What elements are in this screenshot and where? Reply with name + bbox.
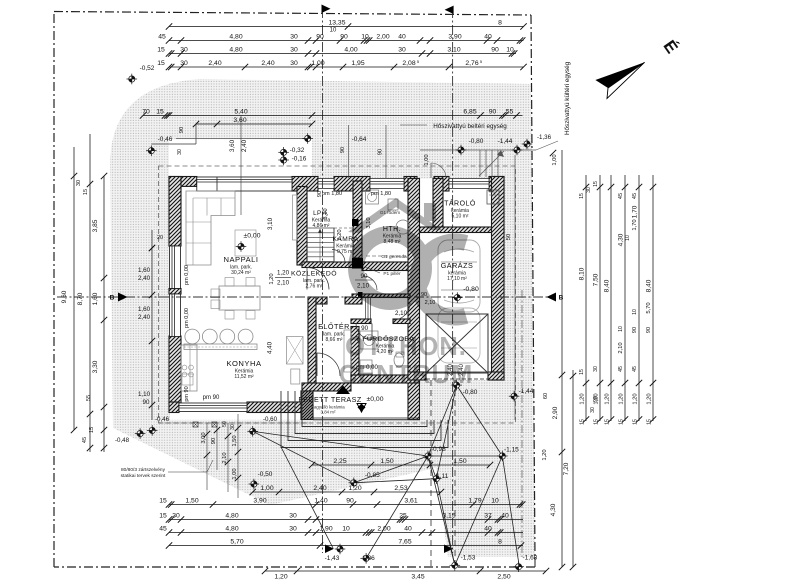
- svg-text:-0,32: -0,32: [290, 147, 305, 154]
- terrace south edge: [313, 417, 420, 419]
- svg-text:3,60: 3,60: [229, 139, 236, 152]
- svg-text:15: 15: [157, 60, 165, 67]
- svg-text:45: 45: [158, 33, 166, 40]
- svg-text:1,70: 1,70: [632, 205, 639, 218]
- svg-text:90: 90: [378, 149, 384, 155]
- svg-text:-1,26: -1,26: [360, 555, 375, 562]
- svg-text:-1,44: -1,44: [519, 388, 534, 395]
- pillar P1: [352, 258, 363, 269]
- svg-text:FEDETT TERASZ: FEDETT TERASZ: [298, 395, 361, 404]
- svg-text:OTTHON.: OTTHON.: [345, 333, 467, 361]
- svg-text:15: 15: [579, 369, 585, 375]
- parcel stippled ground: [110, 79, 535, 557]
- tall cabinets: [287, 337, 304, 365]
- left dimension columns: [73, 147, 75, 430]
- bath west wall: [351, 327, 359, 384]
- svg-text:ELŐTÉR: ELŐTÉR: [318, 322, 350, 331]
- svg-text:3,85: 3,85: [92, 219, 99, 232]
- svg-text:4,30: 4,30: [550, 503, 557, 516]
- left windows pm 0,00: [170, 246, 181, 337]
- svg-text:B: B: [559, 295, 564, 302]
- svg-text:Hőszivattyú beltéri egység: Hőszivattyú beltéri egység: [433, 123, 507, 130]
- stairs LPH: [307, 228, 334, 262]
- bath south / terrace north wall: [351, 375, 420, 383]
- svg-text:-1,53: -1,53: [461, 555, 476, 562]
- kitchen south window: [179, 403, 247, 412]
- svg-text:11,52 m²: 11,52 m²: [234, 374, 254, 380]
- svg-text:3,45: 3,45: [411, 574, 424, 581]
- svg-text:30: 30: [289, 512, 297, 519]
- watermark logo: [339, 198, 474, 389]
- svg-text:6,85: 6,85: [463, 108, 476, 115]
- svg-text:40: 40: [501, 512, 509, 519]
- svg-text:15: 15: [580, 419, 586, 425]
- svg-text:1,00: 1,00: [260, 485, 273, 492]
- svg-text:1,00: 1,00: [552, 154, 558, 165]
- svg-text:2,90: 2,90: [552, 406, 559, 419]
- svg-text:1,60: 1,60: [138, 267, 151, 274]
- door hall: [307, 268, 329, 290]
- wall nappali/hall: [297, 187, 307, 266]
- svg-text:-0,48: -0,48: [115, 437, 130, 444]
- svg-text:15: 15: [647, 419, 653, 425]
- svg-text:1,40: 1,40: [314, 497, 327, 504]
- svg-text:2,00: 2,00: [377, 525, 390, 532]
- svg-text:1,00: 1,00: [232, 468, 238, 479]
- svg-text:4,30: 4,30: [618, 233, 625, 246]
- svg-text:2,10: 2,10: [357, 283, 370, 290]
- svg-text:1,20: 1,20: [348, 485, 361, 492]
- svg-text:30: 30: [230, 424, 236, 430]
- svg-text:1,00: 1,00: [311, 60, 324, 67]
- svg-text:-0,46: -0,46: [155, 416, 170, 423]
- house walls: [169, 177, 197, 187]
- hth boiler: [396, 220, 410, 234]
- car on apron: [438, 308, 480, 363]
- top dimension rows: [169, 26, 524, 28]
- svg-text:1,70: 1,70: [632, 219, 638, 230]
- tarolo heat pump unit: [487, 190, 499, 204]
- tarolo top window: [449, 179, 489, 189]
- svg-text:60: 60: [543, 393, 549, 399]
- svg-text:2,20: 2,20: [337, 229, 343, 240]
- level line with heat pump: [420, 149, 536, 151]
- svg-text:3,10: 3,10: [267, 217, 274, 230]
- svg-text:2,25: 2,25: [333, 458, 346, 465]
- svg-text:2,53: 2,53: [394, 485, 407, 492]
- svg-text:1,20: 1,20: [580, 393, 586, 404]
- svg-text:5,70: 5,70: [230, 538, 243, 545]
- svg-text:7,65: 7,65: [398, 538, 411, 545]
- svg-text:15: 15: [619, 419, 625, 425]
- svg-text:1,60: 1,60: [92, 292, 99, 305]
- svg-text:13,35: 13,35: [328, 19, 345, 26]
- svg-text:15: 15: [579, 193, 585, 199]
- svg-text:30: 30: [590, 407, 596, 413]
- svg-text:30: 30: [290, 33, 298, 40]
- svg-text:45: 45: [159, 525, 167, 532]
- svg-text:30: 30: [76, 180, 82, 186]
- eloter wardrobe: [344, 330, 351, 372]
- svg-text:3,90: 3,90: [448, 33, 461, 40]
- svg-text:5,10 m²: 5,10 m²: [452, 214, 469, 220]
- svg-text:90: 90: [421, 292, 427, 298]
- svg-text:pm 90: pm 90: [184, 386, 190, 401]
- svg-text:-0,80: -0,80: [463, 286, 479, 293]
- svg-text:NAPPALI: NAPPALI: [223, 255, 258, 264]
- lobby thin wall: [352, 294, 410, 298]
- svg-text:8,40: 8,40: [646, 279, 653, 292]
- svg-text:4,40: 4,40: [267, 341, 274, 354]
- svg-text:90: 90: [361, 273, 368, 280]
- svg-text:pm 1,80: pm 1,80: [371, 191, 391, 197]
- wall under HTH: [362, 262, 419, 271]
- hth top window: [370, 179, 404, 189]
- svg-text:2,10: 2,10: [395, 310, 408, 317]
- svg-text:30: 30: [593, 366, 599, 372]
- tv shelf: [293, 195, 298, 240]
- svg-text:1,20: 1,20: [605, 393, 611, 404]
- section line B horizontal: [57, 296, 556, 298]
- section line C vertical: [452, 8, 454, 553]
- east outer wall: [492, 177, 505, 381]
- svg-text:15: 15: [159, 512, 167, 519]
- garage apron X: [426, 314, 488, 373]
- svg-text:1,20: 1,20: [269, 273, 275, 284]
- wall kamra/hth: [353, 181, 362, 258]
- svg-text:7,50: 7,50: [593, 273, 600, 286]
- svg-text:10: 10: [632, 309, 638, 315]
- svg-text:±0,00: ±0,00: [367, 396, 384, 403]
- svg-text:10: 10: [618, 326, 624, 332]
- rug: [235, 230, 256, 256]
- svg-text:3,10: 3,10: [323, 208, 329, 219]
- svg-text:Hőszivattyú kültéri egység: Hőszivattyú kültéri egység: [564, 61, 571, 135]
- svg-text:90: 90: [340, 147, 346, 153]
- svg-text:37: 37: [484, 512, 492, 519]
- svg-text:50: 50: [506, 234, 512, 240]
- svg-text:2,76 m²: 2,76 m²: [306, 284, 323, 290]
- svg-text:2,40: 2,40: [313, 485, 326, 492]
- svg-text:30: 30: [180, 60, 188, 67]
- svg-text:5,40: 5,40: [234, 108, 247, 115]
- kitchen island: [184, 344, 257, 350]
- svg-text:statikai tervek szerint: statikai tervek szerint: [121, 473, 166, 479]
- svg-text:90: 90: [316, 33, 324, 40]
- svg-text:10: 10: [625, 235, 631, 241]
- svg-text:8: 8: [498, 19, 502, 26]
- svg-text:10: 10: [491, 497, 499, 504]
- svg-text:1,00: 1,00: [424, 154, 430, 165]
- bath fixtures: [360, 331, 378, 349]
- svg-text:5,70: 5,70: [646, 302, 652, 313]
- svg-text:15: 15: [156, 108, 164, 115]
- svg-text:25: 25: [399, 512, 407, 519]
- svg-text:pm 90: pm 90: [203, 395, 220, 401]
- svg-text:1,20: 1,20: [647, 393, 653, 404]
- walls hall/eloter with door: [316, 297, 327, 304]
- svg-text:20: 20: [157, 235, 163, 241]
- svg-text:4,00: 4,00: [344, 46, 357, 53]
- svg-text:55: 55: [506, 108, 514, 115]
- svg-text:2,40: 2,40: [261, 60, 274, 67]
- svg-text:90: 90: [646, 327, 652, 333]
- svg-text:15: 15: [605, 419, 611, 425]
- svg-text:50: 50: [222, 421, 228, 427]
- svg-text:8,70: 8,70: [77, 292, 84, 305]
- svg-text:2,50: 2,50: [497, 574, 510, 581]
- svg-text:2,40: 2,40: [459, 364, 465, 376]
- svg-text:2,40: 2,40: [448, 364, 454, 376]
- svg-text:45: 45: [82, 437, 88, 443]
- svg-text:-1,11: -1,11: [434, 473, 449, 480]
- roof eaves dashed outline: [159, 166, 516, 423]
- svg-text:40: 40: [404, 525, 412, 532]
- svg-text:90: 90: [632, 327, 638, 333]
- svg-text:45: 45: [618, 193, 624, 199]
- svg-text:3,90: 3,90: [253, 497, 266, 504]
- svg-text:KONYHA: KONYHA: [226, 359, 262, 368]
- svg-text:B: B: [110, 295, 115, 302]
- svg-text:2,10: 2,10: [425, 300, 436, 306]
- svg-text:1,20: 1,20: [633, 393, 639, 404]
- car in garage: [438, 240, 480, 312]
- svg-text:8,40: 8,40: [604, 279, 611, 292]
- svg-text:-1,43: -1,43: [325, 555, 340, 562]
- svg-text:2,10: 2,10: [222, 452, 228, 463]
- nappali north window: [197, 177, 292, 191]
- svg-text:30,24 m²: 30,24 m²: [231, 270, 251, 276]
- svg-text:30: 30: [290, 46, 298, 53]
- wall under stairs: [302, 262, 363, 268]
- svg-text:-1,15: -1,15: [504, 447, 519, 454]
- svg-text:1,60: 1,60: [138, 306, 151, 313]
- dining table: [219, 286, 260, 310]
- svg-text:15: 15: [159, 497, 167, 504]
- svg-text:15: 15: [593, 181, 599, 187]
- lph top window: [318, 179, 334, 189]
- svg-text:8,10: 8,10: [579, 267, 586, 280]
- svg-text:7,20: 7,20: [563, 462, 570, 475]
- svg-text:15: 15: [594, 419, 600, 425]
- door bath: [356, 324, 372, 340]
- svg-text:GARÁZS: GARÁZS: [441, 261, 474, 270]
- sofa: [186, 191, 235, 265]
- svg-text:1,90: 1,90: [319, 525, 332, 532]
- svg-text:KÖZLEKEDŐ: KÖZLEKEDŐ: [291, 269, 337, 278]
- svg-text:30: 30: [180, 46, 188, 53]
- svg-text:90: 90: [143, 399, 150, 406]
- svg-text:8: 8: [498, 538, 502, 545]
- svg-text:90: 90: [361, 325, 368, 332]
- svg-text:80/80/3 zártszelvény: 80/80/3 zártszelvény: [121, 467, 166, 473]
- svg-text:15: 15: [633, 419, 639, 425]
- svg-text:4,80: 4,80: [229, 33, 242, 40]
- svg-text:15: 15: [89, 427, 95, 433]
- svg-text:40: 40: [484, 525, 492, 532]
- right dimension columns: [561, 150, 563, 567]
- svg-text:1,10: 1,10: [138, 391, 151, 398]
- svg-text:3,15: 3,15: [442, 512, 455, 519]
- svg-text:2,00: 2,00: [376, 33, 389, 40]
- back door arc: [431, 163, 446, 178]
- svg-text:-1,36: -1,36: [537, 134, 552, 141]
- svg-text:3,61: 3,61: [404, 497, 417, 504]
- svg-text:3,00: 3,00: [201, 432, 207, 443]
- section line A vertical: [322, 8, 324, 553]
- svg-text:90: 90: [346, 497, 354, 504]
- svg-text:1,79: 1,79: [468, 497, 481, 504]
- back entrance steps: [479, 150, 481, 177]
- wall tarolo/garage: [420, 227, 505, 233]
- door lobby-bath: [393, 303, 410, 320]
- grading diagonals: [253, 431, 428, 456]
- svg-text:-1,68: -1,68: [522, 555, 537, 562]
- svg-text:3,10: 3,10: [366, 217, 372, 228]
- svg-text:30: 30: [172, 512, 180, 519]
- svg-text:3,30: 3,30: [92, 360, 99, 373]
- house footprint white: [170, 179, 420, 420]
- svg-text:-0,46: -0,46: [158, 136, 173, 143]
- bottom left posts and note: [193, 422, 198, 427]
- east mid wall: [408, 179, 420, 420]
- svg-text:90: 90: [489, 108, 497, 115]
- svg-text:30: 30: [177, 149, 183, 155]
- svg-text:±0,00: ±0,00: [244, 233, 261, 240]
- svg-text:40: 40: [484, 33, 492, 40]
- svg-text:-0,85: -0,85: [365, 472, 380, 479]
- svg-text:1,20: 1,20: [619, 393, 625, 404]
- svg-text:-0,52: -0,52: [140, 65, 155, 72]
- svg-text:3,10: 3,10: [447, 46, 460, 53]
- svg-text:3,84 m²: 3,84 m²: [321, 410, 336, 415]
- svg-text:55: 55: [86, 395, 92, 401]
- svg-text:-0,50: -0,50: [258, 471, 273, 478]
- svg-text:10: 10: [342, 525, 350, 532]
- door hth: [363, 276, 377, 290]
- white annotation zone above house: [169, 139, 312, 176]
- wall tarolo west: [433, 179, 443, 233]
- svg-text:-0,64: -0,64: [352, 136, 367, 143]
- svg-text:3,60: 3,60: [233, 117, 246, 124]
- bottom dimension rows: [169, 504, 523, 506]
- svg-text:70: 70: [142, 108, 150, 115]
- svg-text:-0,98: -0,98: [431, 446, 446, 453]
- svg-text:4,86 m²: 4,86 m²: [313, 223, 330, 229]
- svg-text:8,66 m²: 8,66 m²: [326, 337, 343, 343]
- svg-text:pm 0,00: pm 0,00: [184, 265, 190, 285]
- svg-text:90: 90: [593, 396, 599, 402]
- lobby shaft: [365, 298, 367, 319]
- svg-text:1,20: 1,20: [542, 449, 548, 460]
- svg-text:2,10: 2,10: [618, 342, 624, 353]
- svg-text:2,10: 2,10: [277, 280, 290, 287]
- svg-text:pm 0,00: pm 0,00: [184, 308, 190, 328]
- svg-text:4,80: 4,80: [229, 46, 242, 53]
- svg-text:10: 10: [506, 46, 514, 53]
- svg-text:2,40: 2,40: [138, 275, 151, 282]
- svg-text:-0,80: -0,80: [469, 138, 484, 145]
- svg-text:30: 30: [290, 60, 298, 67]
- svg-text:4,80: 4,80: [225, 525, 238, 532]
- svg-text:2,40: 2,40: [241, 139, 248, 152]
- north arrow: [595, 62, 644, 88]
- bath north wall: [351, 319, 371, 324]
- kitchen counter: [181, 345, 197, 391]
- kamra partition: [334, 227, 353, 229]
- svg-text:2,40: 2,40: [138, 314, 151, 321]
- svg-text:1,50: 1,50: [232, 435, 238, 446]
- svg-text:30: 30: [586, 187, 592, 193]
- svg-text:-0,80: -0,80: [463, 389, 478, 396]
- svg-text:2,08: 2,08: [402, 60, 415, 67]
- svg-text:G1 födém: G1 födém: [380, 210, 400, 215]
- svg-text:10: 10: [330, 28, 337, 34]
- svg-text:90: 90: [491, 46, 499, 53]
- svg-text:-0,16: -0,16: [292, 156, 307, 163]
- svg-text:pm 1,80: pm 1,80: [322, 191, 342, 197]
- svg-text:1,50: 1,50: [453, 458, 466, 465]
- svg-text:2,40: 2,40: [208, 60, 221, 67]
- terrace west wall: [301, 391, 313, 420]
- terrace steps: [302, 391, 427, 427]
- svg-text:10: 10: [361, 33, 369, 40]
- svg-text:15: 15: [157, 46, 165, 53]
- svg-text:90: 90: [179, 127, 185, 133]
- svg-text:30: 30: [398, 46, 406, 53]
- svg-text:90: 90: [340, 33, 348, 40]
- svg-text:90: 90: [211, 438, 217, 444]
- wall eloter west: [308, 297, 316, 383]
- garage south wall: [488, 372, 504, 380]
- property boundary: [54, 12, 531, 16]
- svg-text:1,50: 1,50: [380, 458, 393, 465]
- svg-text:45: 45: [632, 193, 638, 199]
- front door: [317, 353, 340, 376]
- svg-text:4,80: 4,80: [225, 512, 238, 519]
- svg-text:1,20: 1,20: [274, 574, 287, 581]
- pillar small upper: [352, 219, 359, 226]
- svg-text:2,76: 2,76: [465, 60, 478, 67]
- svg-text:15: 15: [83, 189, 89, 195]
- svg-text:-1,44: -1,44: [498, 138, 513, 145]
- door kamra: [332, 250, 345, 263]
- driveway dashed edges: [430, 380, 432, 566]
- svg-text:-0,60: -0,60: [263, 416, 278, 423]
- svg-text:45: 45: [618, 366, 624, 372]
- svg-text:1,20: 1,20: [277, 270, 290, 277]
- svg-text:TÁROLÓ: TÁROLÓ: [444, 199, 476, 208]
- svg-text:G1 gerenda: G1 gerenda: [381, 254, 407, 260]
- svg-text:17,10 m²: 17,10 m²: [447, 276, 467, 282]
- svg-text:P1 pillér: P1 pillér: [383, 271, 401, 277]
- svg-text:30: 30: [289, 525, 297, 532]
- svg-text:45: 45: [632, 366, 638, 372]
- svg-text:40: 40: [398, 33, 406, 40]
- svg-text:1,50: 1,50: [185, 497, 198, 504]
- svg-text:9,60: 9,60: [61, 290, 68, 303]
- svg-text:1,95: 1,95: [351, 60, 364, 67]
